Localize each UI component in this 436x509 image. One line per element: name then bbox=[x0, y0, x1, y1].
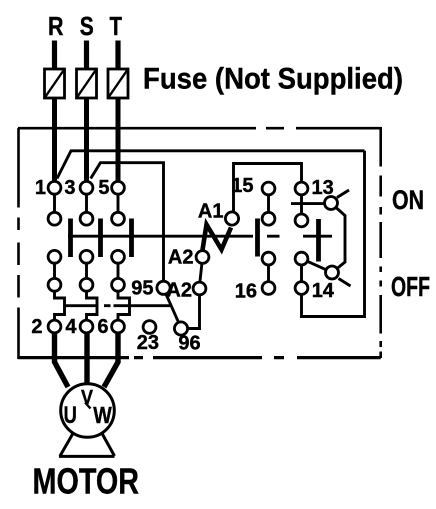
svg-text:W: W bbox=[93, 402, 112, 428]
svg-text:U: U bbox=[64, 402, 77, 429]
svg-text:V: V bbox=[81, 387, 94, 409]
svg-text:4: 4 bbox=[65, 316, 77, 338]
svg-text:2: 2 bbox=[31, 316, 42, 338]
svg-text:16: 16 bbox=[235, 281, 257, 303]
svg-text:Fuse (Not Supplied): Fuse (Not Supplied) bbox=[143, 63, 403, 96]
svg-text:R: R bbox=[48, 11, 64, 41]
svg-text:S: S bbox=[80, 11, 94, 41]
svg-text:96: 96 bbox=[178, 333, 200, 355]
svg-text:A2: A2 bbox=[166, 280, 192, 302]
svg-text:3: 3 bbox=[64, 177, 75, 199]
svg-text:6: 6 bbox=[97, 316, 108, 338]
svg-text:OFF: OFF bbox=[391, 271, 430, 302]
svg-text:15: 15 bbox=[231, 175, 253, 197]
svg-text:23: 23 bbox=[137, 332, 159, 354]
svg-text:95: 95 bbox=[131, 278, 153, 300]
svg-text:A2: A2 bbox=[168, 247, 194, 269]
svg-text:1: 1 bbox=[35, 177, 46, 199]
svg-text:A1: A1 bbox=[198, 201, 224, 223]
svg-text:ON: ON bbox=[392, 185, 424, 215]
svg-text:T: T bbox=[110, 11, 123, 41]
svg-text:14: 14 bbox=[312, 280, 335, 302]
svg-text:MOTOR: MOTOR bbox=[33, 461, 140, 502]
svg-text:13: 13 bbox=[312, 177, 334, 199]
svg-text:5: 5 bbox=[98, 177, 109, 199]
